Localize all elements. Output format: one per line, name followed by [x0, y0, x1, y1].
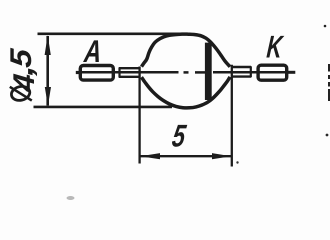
glass bulb body outline bottom [142, 77, 231, 108]
arrow down [45, 87, 51, 106]
dimension line o4,5 vertical [46, 36, 49, 106]
anode crimp rectangle [80, 66, 113, 81]
arrow up [45, 35, 51, 55]
glass bulb body outline top [142, 34, 231, 67]
cathode crimp rectangle [258, 65, 287, 80]
scan clipped text right edge [328, 64, 330, 101]
cathode pinch end closure [250, 66, 252, 77]
scan smudge bottom left [67, 196, 75, 200]
scan speck right lower [326, 134, 329, 137]
extension line 5 right [231, 65, 233, 167]
cathode pinch top line [231, 66, 251, 68]
extension line top (tangent to bulb top) [38, 32, 184, 35]
anode pinch bottom line [119, 76, 140, 78]
cathode wire stub [287, 71, 295, 74]
cathode pinch bottom line [231, 75, 251, 77]
arrow left [140, 153, 160, 159]
dimension line 5 [141, 155, 232, 157]
diameter symbol oval [10, 85, 31, 103]
extension line bottom [34, 106, 173, 109]
scan speck top right [324, 25, 327, 28]
arrow right [212, 153, 231, 159]
axis dot [184, 71, 189, 74]
svg-text:A: A [82, 34, 103, 69]
scan speck near right extension end [236, 161, 238, 163]
axis dash to bar [195, 71, 206, 74]
axis centerline right (bar to lead end) [213, 71, 295, 74]
anode pinch end closure [118, 67, 120, 77]
anode pinch top line [119, 67, 140, 69]
diameter symbol slash [10, 87, 32, 101]
extension line 5 left [138, 67, 140, 164]
crystal bar inside bulb [205, 43, 212, 100]
anode wire stub [76, 71, 81, 74]
axis centerline left (through lead and pinch) [76, 71, 179, 74]
